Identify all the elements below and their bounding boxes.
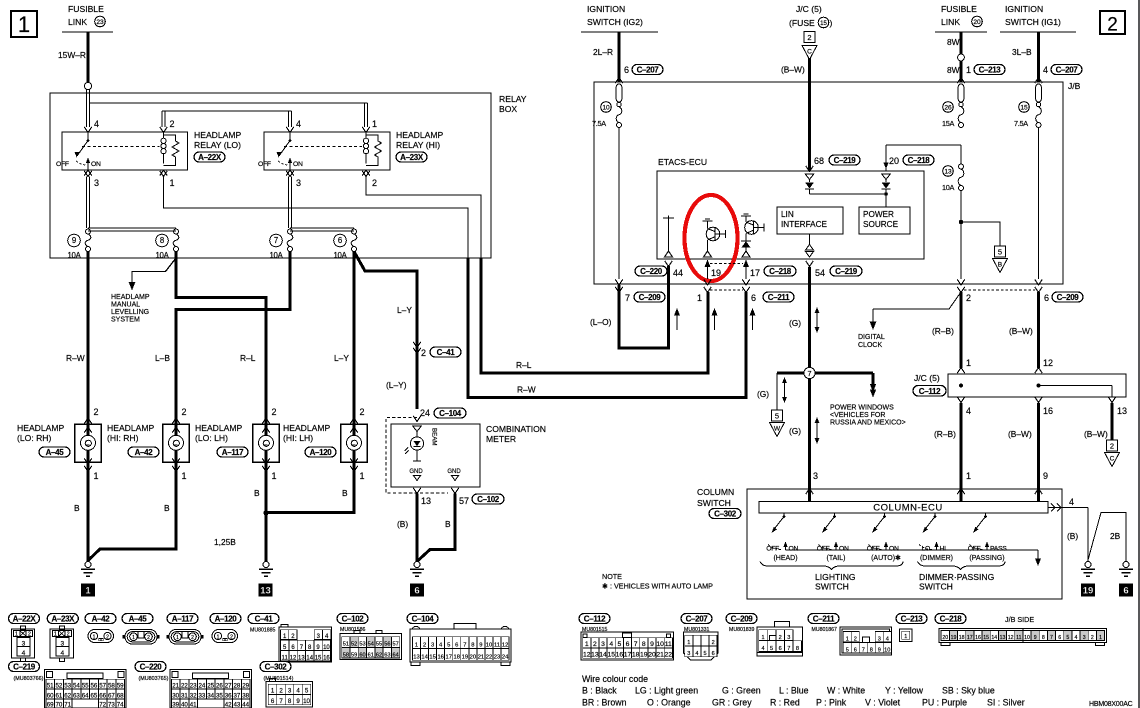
svg-text:ETACS-ECU: ETACS-ECU: [658, 157, 707, 167]
svg-text:HEADLAMP: HEADLAMP: [194, 130, 242, 140]
svg-text:20: 20: [470, 655, 476, 661]
fuse 13 10A in J/B: [960, 145, 962, 164]
headlamp LO RH bulb box: [75, 424, 102, 462]
svg-text:1: 1: [966, 358, 971, 368]
svg-text:B : Black: B : Black: [582, 686, 617, 696]
switch DIMMER blade: [924, 517, 935, 531]
svg-text:C–104: C–104: [412, 614, 435, 623]
svg-text:L–Y: L–Y: [397, 305, 412, 315]
svg-text:58: 58: [108, 682, 115, 689]
svg-text:30: 30: [172, 692, 179, 699]
svg-text:COLUMN-ECU: COLUMN-ECU: [873, 503, 942, 514]
svg-text:OFF: OFF: [258, 161, 271, 168]
junction 7 circle: [804, 367, 815, 378]
svg-text:J/C (5): J/C (5): [914, 373, 940, 383]
svg-text:FUSIBLE: FUSIBLE: [941, 4, 977, 14]
svg-text:C–112: C–112: [584, 614, 606, 623]
svg-text:14: 14: [306, 655, 313, 661]
left branch to ground ref 5 W: [776, 373, 778, 410]
svg-text:22: 22: [664, 652, 672, 659]
svg-text:65: 65: [90, 692, 97, 699]
svg-text:(G): (G): [789, 318, 801, 328]
svg-text:56: 56: [384, 642, 390, 648]
svg-text:5: 5: [1066, 635, 1069, 641]
svg-text:43: 43: [233, 701, 240, 708]
svg-text:IGNITION: IGNITION: [1005, 4, 1043, 14]
svg-text:4: 4: [296, 119, 301, 129]
svg-text:1: 1: [966, 65, 971, 75]
svg-text:6: 6: [1123, 586, 1128, 597]
svg-text:44: 44: [673, 268, 683, 278]
headlamp LO LH bulb wire through box: [265, 416, 268, 470]
fusible link 23 terminal bar: [62, 31, 113, 33]
wire fuse10 down to C-209 pin 7: [618, 127, 620, 279]
svg-text:4: 4: [761, 646, 764, 652]
svg-text:GND: GND: [409, 469, 423, 475]
column ECU output pin 4: [1048, 507, 1088, 509]
svg-text:(AUTO)✱: (AUTO)✱: [871, 554, 901, 562]
headlamp HI LH bulb wire through box: [353, 416, 356, 470]
bus wire A (power to relay pins): [90, 102, 368, 104]
svg-text:2: 2: [1110, 442, 1114, 451]
wire fuse6 output to headlamp HI LH (L-Y): [353, 252, 356, 417]
switch DIMMER ON arrow: [936, 545, 938, 550]
headlamp HI RH bulb box: [163, 424, 190, 462]
svg-text:INTERFACE: INTERFACE: [781, 220, 827, 229]
svg-text:1: 1: [271, 688, 275, 695]
svg-text:P : Pink: P : Pink: [816, 698, 847, 708]
svg-text:9: 9: [296, 698, 300, 705]
wire (R-B) C-209 pin2 to J/C5: [960, 292, 963, 368]
relay LO pin3 wire to fuse bus (double): [86, 177, 88, 229]
svg-text:8: 8: [870, 648, 873, 654]
svg-text:2: 2: [279, 688, 283, 695]
svg-text:51: 51: [47, 682, 54, 689]
svg-text:7.5A: 7.5A: [1014, 119, 1028, 128]
fuse 9 10A: [86, 229, 91, 234]
wire (B-W) to page 2 ref C: [1111, 403, 1114, 440]
svg-text:1: 1: [761, 635, 764, 641]
svg-text:3: 3: [431, 643, 434, 649]
chevron + label 6 C-207: [615, 78, 623, 84]
svg-text:C–209: C–209: [639, 293, 662, 302]
connector C-41 pinout: [248, 614, 279, 624]
svg-text:18: 18: [959, 635, 965, 641]
connector C-219 pinout: [9, 662, 40, 672]
switch TAIL blade: [824, 517, 835, 531]
wire R-W fuse9 to headlamp LO RH: [87, 252, 90, 417]
svg-text:✱ : VEHICLES WITH AUTO LAMP: ✱ : VEHICLES WITH AUTO LAMP: [602, 582, 713, 591]
svg-text:SWITCH: SWITCH: [697, 498, 731, 508]
wire 2B to ground 6 (right): [1088, 513, 1126, 563]
connector A-42 pinout: [85, 614, 116, 624]
relay box outline: [50, 93, 491, 258]
svg-text:4: 4: [1069, 497, 1074, 507]
svg-text:57: 57: [459, 496, 469, 506]
svg-text:10: 10: [656, 641, 664, 648]
svg-text:HEADLAMP: HEADLAMP: [396, 130, 444, 140]
relay HI pin3 wire to fuse bus (double): [288, 177, 290, 229]
svg-text:73: 73: [108, 701, 115, 708]
scan edge band (right): [1138, 0, 1140, 708]
svg-text:5: 5: [846, 648, 849, 654]
svg-text:J/C (5): J/C (5): [796, 4, 822, 14]
wire 2L-R from IG2: [618, 32, 621, 82]
headlamp HI RH pin 1 label/chevrons: [172, 458, 180, 464]
ground 19: [1085, 562, 1091, 568]
connector C-220 pinout: [135, 662, 166, 672]
svg-text:6: 6: [712, 651, 715, 657]
svg-text:2: 2: [421, 348, 426, 358]
svg-text:HBM08X00AC: HBM08X00AC: [1089, 701, 1133, 708]
svg-text:15W–R: 15W–R: [58, 50, 86, 60]
svg-text:(DIMMER): (DIMMER): [920, 555, 953, 562]
bus wire B (relay LO pin2 to relay HI pin4): [162, 110, 292, 112]
svg-text:25: 25: [207, 682, 214, 689]
svg-text:19: 19: [951, 635, 957, 641]
svg-text:8: 8: [288, 698, 292, 705]
headlamp HI LH refdes capsule: [305, 447, 336, 457]
wire fuse13 down to C-209 pin 2: [960, 191, 962, 280]
svg-text:(FUSE: (FUSE: [789, 18, 815, 28]
svg-text:6: 6: [1044, 293, 1049, 303]
svg-text:2: 2: [966, 293, 971, 303]
fuse bus left (double horizontal): [88, 227, 176, 229]
wire (R-B) to column switch pin 1: [960, 403, 963, 484]
headlamp HI LH pin 1 label/chevrons: [350, 458, 358, 464]
svg-text:60: 60: [359, 652, 365, 658]
svg-text:1: 1: [687, 640, 690, 646]
svg-text:SB : Sky blue: SB : Sky blue: [942, 686, 995, 696]
svg-text:B: B: [164, 503, 170, 513]
ground 13: [263, 562, 269, 568]
svg-text:16: 16: [1043, 406, 1053, 416]
svg-text:6: 6: [338, 236, 342, 245]
svg-text:MANUAL: MANUAL: [111, 302, 140, 309]
svg-text:55: 55: [82, 682, 89, 689]
svg-text:42: 42: [225, 701, 232, 708]
right branch to power windows: [872, 373, 875, 387]
svg-text:C–219: C–219: [834, 156, 857, 165]
relay LO switch pivot: [87, 132, 89, 141]
connector C-112 pinout: [579, 614, 610, 624]
svg-text:19: 19: [640, 652, 648, 659]
svg-text:PU : Purple: PU : Purple: [922, 698, 967, 708]
svg-text:8: 8: [160, 236, 164, 245]
svg-text:(B): (B): [397, 519, 408, 529]
svg-text:4: 4: [94, 119, 99, 129]
svg-text:4: 4: [886, 637, 889, 643]
headlamp LO LH pin 1 label/chevrons: [262, 458, 270, 464]
svg-text:COMBINATION: COMBINATION: [486, 424, 546, 434]
wire B headlamp LO LH to ground 13: [265, 470, 268, 562]
branch wire to ETACS pin 20 C-218: [886, 144, 961, 146]
svg-text:C–104: C–104: [439, 409, 462, 418]
svg-text:53: 53: [359, 642, 365, 648]
svg-text:HI: HI: [940, 546, 947, 553]
svg-text:HEADLAMP: HEADLAMP: [283, 423, 331, 433]
switch DIMMER stub: [934, 513, 936, 517]
svg-text:2: 2: [807, 33, 811, 42]
wire fuse7 output crossover to L-B column: [176, 252, 290, 417]
connector C-104 pinout: [407, 614, 438, 624]
relay HI relay box body A&#8211;23X: [264, 132, 390, 170]
svg-text:ON: ON: [91, 161, 101, 168]
wire B from headlamp HI RH joining ground 1: [89, 470, 177, 560]
relay HI pin4 drop wire: [288, 111, 290, 127]
chevron + label 4 C-207: [1035, 78, 1043, 84]
switch TAIL ON arrow: [835, 545, 837, 550]
ETACS pin 44 internal element: [663, 217, 674, 219]
svg-text:J/B: J/B: [1068, 81, 1081, 91]
svg-text:(B–W): (B–W): [781, 65, 805, 75]
page number box 1 (top-left): [11, 11, 37, 37]
svg-text:(B): (B): [1067, 531, 1078, 541]
ground 6 (right): [1123, 562, 1129, 568]
wire B from headlamp LO RH to ground 1: [87, 470, 90, 562]
svg-text:34: 34: [207, 692, 214, 699]
svg-text:7: 7: [625, 293, 630, 303]
svg-text:52: 52: [55, 682, 62, 689]
svg-text:(L–O): (L–O): [590, 317, 612, 327]
relay LO resistor parallel with coil: [164, 135, 180, 166]
svg-text:DIMMER·PASSING: DIMMER·PASSING: [919, 572, 995, 582]
svg-text:15: 15: [983, 635, 989, 641]
svg-text:A–45: A–45: [129, 614, 148, 623]
fuse bus right (double horizontal): [290, 227, 354, 229]
svg-text:BOX: BOX: [499, 104, 517, 114]
headlamp HI LH bulb symbol: [347, 435, 362, 450]
column switch input pins 3 1 9: [806, 489, 814, 495]
svg-text:10: 10: [323, 645, 330, 651]
svg-text:3: 3: [601, 641, 605, 648]
svg-text:40: 40: [181, 701, 188, 708]
relay HI pin chevrons bottom: [286, 170, 294, 176]
svg-text:B: B: [445, 519, 451, 529]
svg-text:GR : Grey: GR : Grey: [712, 698, 752, 708]
svg-text:ON: ON: [839, 546, 849, 553]
svg-text:W : White: W : White: [827, 686, 865, 696]
svg-text:SWITCH: SWITCH: [815, 582, 849, 592]
svg-text:A–117: A–117: [172, 614, 194, 623]
svg-text:13: 13: [1000, 635, 1006, 641]
svg-text:10: 10: [602, 104, 610, 111]
svg-text:6: 6: [779, 646, 782, 652]
branch to ground ref 5 B in J/B: [959, 220, 963, 224]
svg-text:(B–W): (B–W): [1084, 429, 1108, 439]
headlamp LO LH bulb box: [253, 424, 280, 462]
svg-text:63: 63: [73, 692, 80, 699]
headlamp LO RH pin 1 label/chevrons: [84, 458, 92, 464]
svg-text:Y : Yellow: Y : Yellow: [885, 686, 924, 696]
svg-text:1,25B: 1,25B: [214, 537, 236, 547]
svg-text:8W: 8W: [947, 37, 960, 47]
relay LO dashed link to coil: [82, 146, 160, 148]
svg-text:15: 15: [820, 21, 827, 27]
svg-text:POWER WINDOWS: POWER WINDOWS: [830, 405, 894, 412]
svg-text:2: 2: [360, 407, 365, 417]
relay LO ON arrow: [87, 160, 89, 170]
svg-text:2: 2: [854, 637, 857, 643]
svg-text:2: 2: [230, 634, 233, 640]
svg-text:(L–Y): (L–Y): [386, 380, 407, 390]
svg-text:9: 9: [1043, 471, 1048, 481]
svg-text:(TAIL): (TAIL): [827, 555, 846, 562]
svg-text:A–22X: A–22X: [13, 614, 37, 623]
svg-text:ON: ON: [293, 161, 303, 168]
svg-text:29: 29: [242, 682, 249, 689]
svg-text:10A: 10A: [942, 183, 955, 192]
svg-text:ON: ON: [789, 546, 799, 553]
svg-text:C–219: C–219: [835, 267, 858, 276]
svg-text:26: 26: [944, 104, 952, 111]
connector A-117 pinout: [167, 614, 198, 624]
relay LO relay box body A&#8211;22X: [62, 132, 188, 170]
svg-text:1: 1: [85, 586, 91, 597]
svg-text:71: 71: [64, 701, 71, 708]
switch AUTO ON arrow: [885, 545, 887, 550]
svg-text:1: 1: [18, 12, 30, 37]
relay HI switch pivot: [289, 132, 291, 141]
svg-text:C–211: C–211: [813, 614, 835, 623]
svg-text:20: 20: [942, 635, 948, 641]
svg-text:70: 70: [55, 701, 62, 708]
switch PASSING dash: [970, 545, 983, 550]
svg-text:54: 54: [815, 268, 825, 278]
svg-text:9: 9: [650, 641, 654, 648]
svg-text:FUSIBLE: FUSIBLE: [68, 4, 104, 14]
svg-text:A–120: A–120: [310, 448, 333, 457]
svg-text:1: 1: [846, 637, 849, 643]
svg-text:20: 20: [889, 156, 899, 166]
svg-text:3: 3: [1083, 635, 1086, 641]
svg-text:O : Orange: O : Orange: [647, 698, 691, 708]
svg-text:SWITCH (IG2): SWITCH (IG2): [587, 17, 643, 27]
svg-text:C–220: C–220: [640, 267, 663, 276]
svg-text:LINK: LINK: [941, 17, 960, 27]
wire 3L-B from IG1: [1037, 32, 1040, 82]
svg-text:13: 13: [1117, 406, 1127, 416]
svg-text:RELAY (LO): RELAY (LO): [194, 140, 241, 150]
fuse 8 10A: [174, 229, 179, 234]
svg-text:A–120: A–120: [215, 614, 238, 623]
COLUMN-ECU bar: [759, 502, 1048, 514]
svg-text:44: 44: [242, 701, 249, 708]
switch HEAD blade: [773, 517, 784, 531]
svg-text:54: 54: [73, 682, 80, 689]
svg-text:55: 55: [376, 642, 382, 648]
svg-text:17: 17: [750, 268, 760, 278]
svg-text:28: 28: [233, 682, 240, 689]
svg-text:59: 59: [351, 652, 357, 658]
J/C outputs: [957, 397, 965, 403]
svg-text:A–23X: A–23X: [400, 153, 424, 162]
svg-text:15: 15: [315, 655, 322, 661]
svg-text:14: 14: [421, 655, 428, 661]
svg-text:Wire colour code: Wire colour code: [582, 674, 648, 684]
svg-text:64: 64: [393, 652, 399, 658]
page ref box 2 with triangle C: [804, 32, 815, 43]
svg-text:74: 74: [117, 701, 124, 708]
junction dot B wires: [263, 510, 268, 515]
svg-text:13: 13: [591, 652, 599, 659]
meter pin 57 chevron + label: [451, 488, 459, 494]
svg-text:2L–R: 2L–R: [593, 47, 613, 57]
svg-text:62: 62: [376, 652, 382, 658]
connector circle on 15W-R wire: [84, 82, 91, 89]
svg-text:SYSTEM: SYSTEM: [111, 317, 140, 324]
svg-text:C–219: C–219: [13, 662, 36, 671]
svg-text:2: 2: [106, 634, 109, 640]
wire B meter pin57 joining ground 6: [418, 494, 455, 561]
svg-text:57: 57: [393, 642, 399, 648]
svg-text:SWITCH: SWITCH: [919, 582, 953, 592]
svg-text:(LO: LH): (LO: LH): [195, 433, 228, 443]
wire fuse8 output crossover to R-L column: [176, 252, 266, 417]
switch PASSING ON arrow: [986, 545, 988, 550]
svg-text:31: 31: [181, 692, 188, 699]
svg-text:11: 11: [665, 641, 672, 648]
diode 2 (C-218 input): [882, 174, 891, 180]
connector A-23X pinout: [47, 614, 78, 624]
svg-text:5: 5: [703, 651, 706, 657]
svg-text:5: 5: [617, 641, 621, 648]
svg-text:56: 56: [90, 682, 97, 689]
svg-text:MU801586: MU801586: [340, 627, 365, 633]
svg-text:1: 1: [176, 635, 179, 641]
svg-text:1: 1: [1099, 635, 1102, 641]
switch common bus: [786, 549, 1039, 551]
svg-text:SWITCH (IG1): SWITCH (IG1): [1005, 17, 1061, 27]
svg-text:8: 8: [471, 643, 474, 649]
wire (L-O) U-turn up to ETACS pin 44: [619, 266, 669, 348]
combination meter dashed boundary: [386, 418, 448, 494]
svg-text:23: 23: [96, 19, 104, 26]
svg-text:23: 23: [494, 655, 500, 661]
svg-text:L–Y: L–Y: [334, 353, 349, 363]
svg-text:4: 4: [60, 650, 64, 657]
headlamp LO RH refdes capsule: [39, 447, 70, 457]
svg-text:POWER: POWER: [863, 210, 894, 219]
svg-text:1: 1: [182, 471, 187, 481]
svg-text:10: 10: [1024, 635, 1030, 641]
svg-text:54: 54: [368, 642, 374, 648]
headlamp LO LH bulb symbol: [259, 435, 274, 450]
svg-text:A–42: A–42: [92, 614, 111, 623]
wire from circle into relay box (double line): [86, 90, 88, 128]
svg-text:19: 19: [462, 655, 468, 661]
svg-text:BR : Brown: BR : Brown: [582, 698, 627, 708]
switch TAIL dash: [819, 545, 832, 550]
beam indicator LED: [416, 432, 418, 438]
svg-text:SI : Silver: SI : Silver: [987, 698, 1025, 708]
svg-text:C–102: C–102: [477, 495, 500, 504]
svg-text:RELAY (HI): RELAY (HI): [396, 140, 440, 150]
svg-text:C–41: C–41: [437, 348, 456, 357]
svg-text:21: 21: [172, 682, 179, 689]
svg-text:B: B: [342, 488, 348, 498]
svg-text:3: 3: [94, 178, 99, 188]
svg-text:3L–B: 3L–B: [1012, 47, 1032, 57]
svg-text:LEVELLING: LEVELLING: [111, 309, 149, 316]
svg-text:2: 2: [28, 632, 31, 638]
svg-text:3: 3: [296, 178, 301, 188]
svg-text:7: 7: [463, 643, 466, 649]
svg-text:1: 1: [94, 471, 99, 481]
svg-text:B: B: [998, 261, 1003, 268]
svg-text:12: 12: [583, 652, 591, 659]
svg-text:63: 63: [384, 652, 390, 658]
